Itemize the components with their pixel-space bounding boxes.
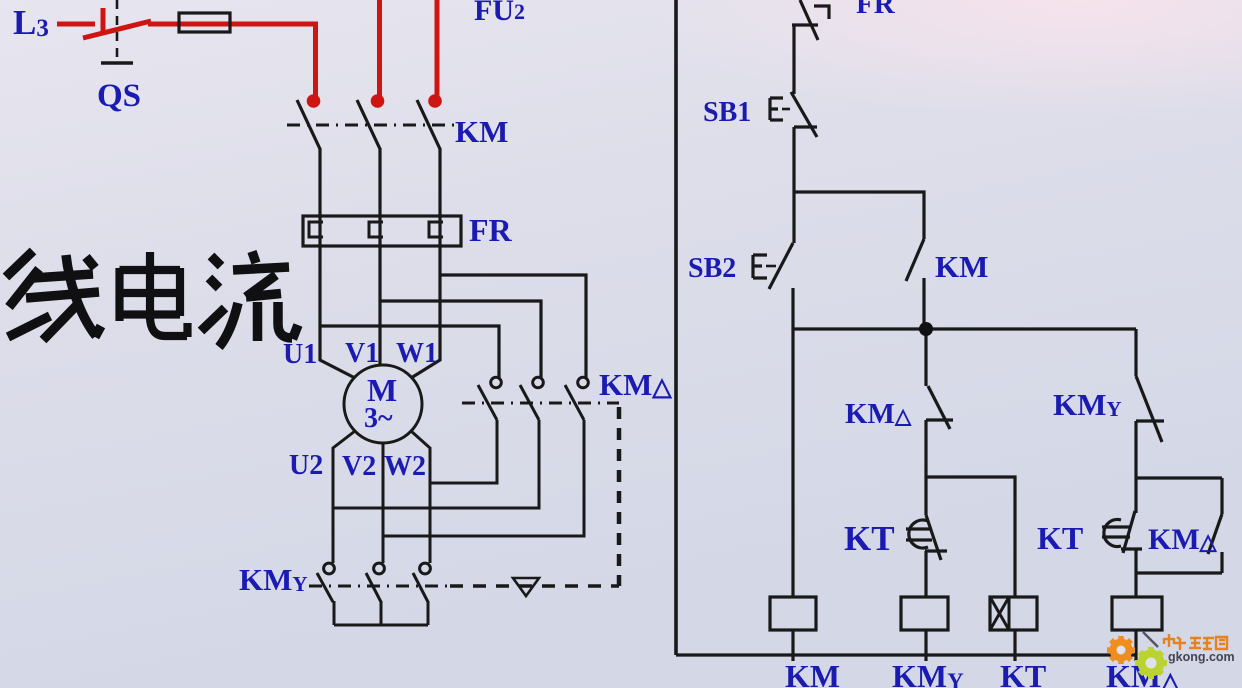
wire branch1 KM coil xyxy=(791,329,794,597)
hanzi LIU water radical xyxy=(201,256,225,331)
wire SB1 to SB2 xyxy=(792,127,795,243)
fuse FU1 body xyxy=(179,13,230,32)
KT coil X mark xyxy=(990,597,1009,630)
wire FR3 down to W1 xyxy=(411,246,440,378)
coil KT xyxy=(990,597,1037,630)
wire KM-Y pole3 down xyxy=(427,601,430,625)
SB2 actuator dash xyxy=(766,265,776,268)
KM-Y linkage dash-dot xyxy=(309,585,450,588)
coil KM-delta xyxy=(1112,597,1162,630)
wire parallel top xyxy=(1136,476,1222,479)
wire KM-delta aux down xyxy=(1220,552,1223,573)
QS bar xyxy=(101,61,133,65)
KM-delta hook pole1 xyxy=(491,377,502,388)
wire branch V to KM-delta pole2 xyxy=(380,301,541,378)
wire to KM-delta coil xyxy=(1134,573,1137,597)
contact KT2 timed blade xyxy=(1123,511,1135,553)
switch QS fixed stub xyxy=(101,8,106,32)
wire KT coil down xyxy=(1013,630,1016,661)
FR heater 2 xyxy=(369,222,383,237)
wire KM pole2 to FR xyxy=(378,148,381,248)
KT timed bar xyxy=(925,549,947,552)
contactor KM-delta contacts xyxy=(333,377,619,536)
wire FR to SB1 xyxy=(792,25,795,94)
wire KM-Y coil down xyxy=(924,630,927,661)
FR heater 1 xyxy=(309,222,323,237)
wire KM-Y pole2 down xyxy=(380,601,383,625)
button SB2 blade xyxy=(769,243,793,289)
contact KM aux blade xyxy=(906,239,924,281)
wire KT2 down xyxy=(1134,550,1137,573)
gear orange xyxy=(1107,636,1135,664)
dashed interlock vertical xyxy=(617,407,622,586)
svg-text:SB1: SB1 xyxy=(703,97,751,128)
watermark hanzi xyxy=(1164,634,1227,650)
wire W2 motor to KM-Y pole3 xyxy=(411,431,430,563)
wire phase 3 xyxy=(435,0,440,100)
wire KM-delta coil down xyxy=(1134,630,1137,661)
wire U2 motor to KM-Y pole1 xyxy=(333,431,355,563)
wire branch2 top xyxy=(924,329,927,386)
wire KM aux down xyxy=(922,278,925,330)
svg-text:V2: V2 xyxy=(342,451,376,482)
wire parallel bottom xyxy=(1136,571,1222,574)
KT timed arc xyxy=(909,520,928,548)
KM linkage dash-dot xyxy=(287,124,459,127)
wire KM-delta pole1 to W2 xyxy=(430,420,497,483)
svg-text:gkong.com: gkong.com xyxy=(1168,650,1235,664)
wire FR2 down to V1 xyxy=(378,246,381,366)
SB1 NC bar xyxy=(794,125,817,128)
contact KM-delta aux top xyxy=(1220,478,1223,514)
svg-text:FR: FR xyxy=(469,212,513,248)
star point bar xyxy=(334,624,428,627)
wire KM pole3 to FR xyxy=(438,148,441,248)
FR heater 3 xyxy=(429,222,443,237)
svg-text:FR: FR xyxy=(856,0,896,20)
wire KM-Y pole1 down xyxy=(333,601,336,625)
terminal hook phase 1 xyxy=(307,94,321,108)
KM-delta NC bar xyxy=(926,418,953,421)
wire fuse to corner, down to KM pole 1 xyxy=(148,24,316,100)
hanzi XIAN left radical xyxy=(6,251,50,337)
KT2 timed arc xyxy=(1104,520,1121,547)
svg-text:KT: KT xyxy=(1000,658,1046,688)
bus node row xyxy=(793,327,1136,330)
motor M circle xyxy=(344,365,422,443)
wire FR1 down to U1 xyxy=(320,246,355,378)
terminal hook phase 3 xyxy=(428,94,442,108)
KM-delta blade pole1 xyxy=(478,385,497,420)
KM blade pole 3 xyxy=(417,100,440,149)
svg-text:KM: KM xyxy=(785,658,840,688)
KM-delta aux blade xyxy=(1208,514,1222,554)
wire KM-delta pole3 to V2 xyxy=(382,420,584,536)
wire branch to KM aux xyxy=(794,192,924,239)
wire KT2 top xyxy=(1134,478,1137,513)
KM-Y NC bar xyxy=(1136,419,1164,422)
wire jog to KT coil xyxy=(926,477,1015,597)
wire V2 motor to KM-Y pole2 xyxy=(382,443,385,563)
relay FR NC contact blade xyxy=(800,0,818,40)
coil KM xyxy=(770,597,816,630)
svg-text:KM: KM xyxy=(935,249,988,284)
SB1 actuator dash xyxy=(782,108,790,111)
svg-text:KT: KT xyxy=(1037,520,1083,556)
KM-Y blade pole1 xyxy=(317,573,333,602)
svg-text:QS: QS xyxy=(97,78,141,114)
FR release hook xyxy=(814,6,829,19)
wire below KM-Y NC xyxy=(1134,421,1137,478)
KM-Y blade pole2 xyxy=(366,573,381,602)
contact KM-delta NC blade xyxy=(928,386,950,429)
switch QS blade xyxy=(83,21,151,38)
interlock dashed horizontal xyxy=(450,584,619,588)
KM-delta linkage dash-dot xyxy=(462,402,619,405)
KM-Y blade pole3 xyxy=(413,573,428,602)
wire branch U to KM-delta pole1 xyxy=(320,326,499,378)
hanzi XIAN right part xyxy=(26,255,101,340)
contact KT timed blade xyxy=(926,515,941,560)
svg-text:U1: U1 xyxy=(283,339,317,370)
wire KM-delta NC to KT contact xyxy=(924,477,927,515)
svg-text:SB2: SB2 xyxy=(688,253,736,284)
svg-text:KT: KT xyxy=(844,519,895,558)
KM-delta hook pole2 xyxy=(533,377,544,388)
KM blade pole 1 xyxy=(297,100,320,149)
wire KM-delta pole2 to U2 xyxy=(333,420,539,508)
wire phase 2 xyxy=(377,0,382,100)
KM-Y hook pole2 xyxy=(374,563,385,574)
KM-delta blade pole2 xyxy=(520,385,539,420)
button SB1 actuator xyxy=(770,98,783,120)
terminal hook phase 2 xyxy=(371,94,385,108)
coil KM-Y xyxy=(901,597,948,630)
svg-text:3~: 3~ xyxy=(364,403,393,434)
wire L3 horizontal xyxy=(57,22,95,27)
KM-Y hook pole3 xyxy=(420,563,431,574)
wire below KM-delta NC xyxy=(924,420,927,477)
button SB2 actuator xyxy=(753,255,767,278)
wrench line xyxy=(1143,632,1158,647)
hanzi LIU right part xyxy=(219,252,298,348)
wire KM pole1 to FR xyxy=(318,148,321,248)
svg-text:KM: KM xyxy=(455,114,508,149)
KM-delta hook pole3 xyxy=(578,377,589,388)
wire branch4 top corner xyxy=(1134,329,1137,376)
KM-Y hook pole1 xyxy=(324,563,335,574)
KT timed lines xyxy=(906,529,932,540)
contact KM-Y NC blade xyxy=(1136,376,1162,442)
left rail xyxy=(674,0,678,655)
svg-text:FU2: FU2 xyxy=(474,0,525,27)
KT2 timed lines xyxy=(1102,527,1130,537)
wire branch W to KM-delta pole3 xyxy=(440,275,586,378)
svg-text:W1: W1 xyxy=(396,338,438,369)
KT2 timed bar xyxy=(1121,547,1142,550)
junction node dot xyxy=(919,322,933,336)
node L3 red feed wire xyxy=(57,0,437,100)
FR NC bar xyxy=(792,23,818,26)
wire SB2 down xyxy=(791,288,794,330)
wire KM coil down xyxy=(791,630,794,661)
bottom bus xyxy=(676,653,1136,656)
interlock triangle xyxy=(513,578,539,596)
wire KT to KMY coil xyxy=(924,551,927,597)
KM-delta blade pole3 xyxy=(565,385,584,420)
button SB1 blade xyxy=(791,92,817,137)
thermal relay FR box xyxy=(303,216,461,246)
KM blade pole 2 xyxy=(357,100,380,149)
gear green xyxy=(1135,647,1167,679)
hanzi DIAN xyxy=(120,252,188,337)
contactor KM main contacts xyxy=(287,100,459,248)
QS dashed linkage line xyxy=(116,0,119,57)
svg-text:V1: V1 xyxy=(345,338,379,369)
svg-text:W2: W2 xyxy=(384,451,426,482)
svg-text:U2: U2 xyxy=(289,450,323,481)
